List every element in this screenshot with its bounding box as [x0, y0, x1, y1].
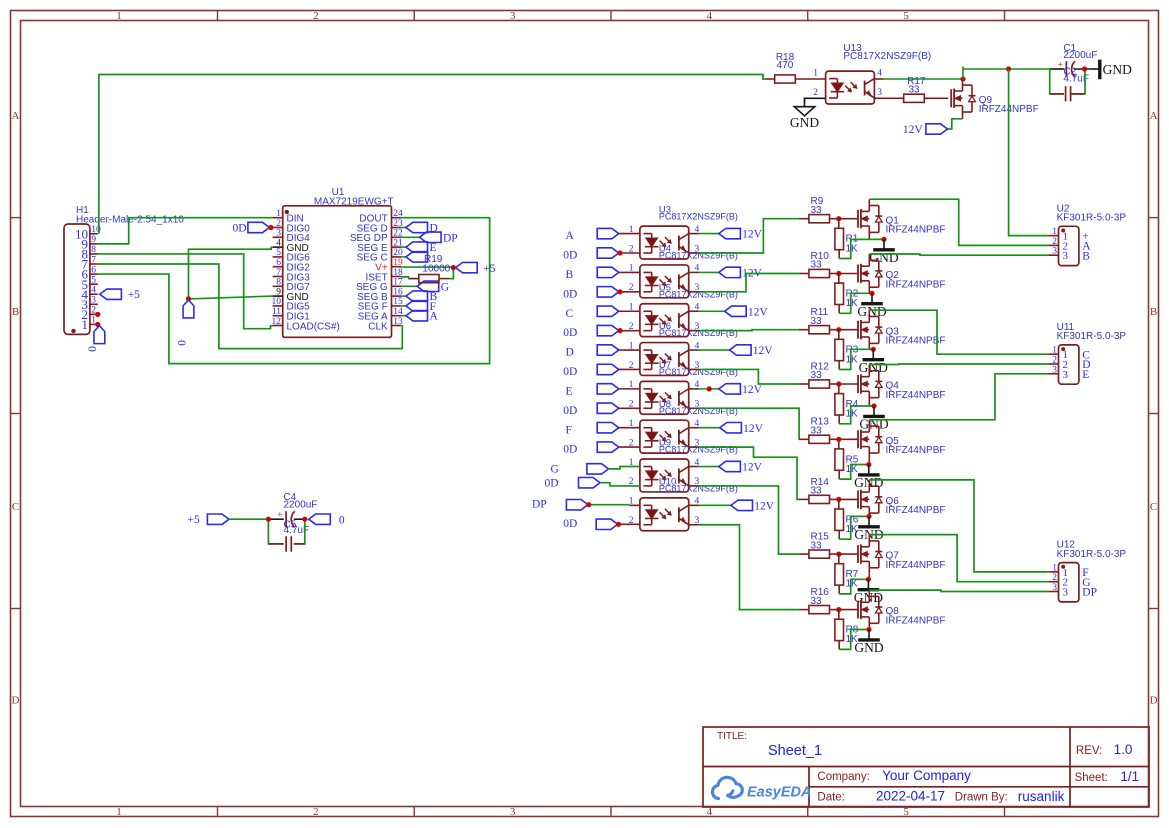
wire R6 to ground [839, 516, 869, 539]
wire gate Q6 [839, 498, 858, 500]
resistor R2 1K [835, 274, 859, 314]
node 0D row 1 [617, 250, 622, 255]
node Q1 source junction [881, 237, 886, 242]
node R11 junction [836, 327, 841, 332]
optocoupler U4 [640, 265, 689, 298]
svg-text:G: G [551, 464, 559, 476]
node R9 junction [836, 216, 841, 221]
svg-text:GND: GND [790, 115, 819, 130]
U1 pin 13 CLK [368, 317, 403, 333]
svg-text:D: D [12, 695, 20, 707]
resistor R12 33 [799, 361, 839, 388]
svg-text:3: 3 [1052, 583, 1057, 593]
wire R5 to ground [839, 465, 869, 480]
svg-text:2: 2 [813, 88, 818, 98]
svg-text:12V: 12V [742, 229, 763, 241]
wire 12V rail to C1 [963, 67, 1050, 80]
capacitor C4 2200uF [268, 492, 317, 527]
svg-text:1: 1 [82, 317, 89, 332]
transistor Q1 IRFZ44NPBF [858, 199, 882, 239]
svg-text:12V: 12V [753, 345, 774, 357]
svg-text:3: 3 [276, 229, 281, 239]
svg-text:3: 3 [91, 296, 96, 306]
transistor Q3 IRFZ44NPBF [858, 310, 882, 349]
U1 pin 22 SEG DP [350, 229, 403, 245]
node R14 junction [836, 497, 841, 502]
svg-text:0: 0 [176, 340, 188, 346]
power flag +5 at R19 [456, 262, 496, 275]
U1 pin 3 DIG4 [273, 229, 311, 245]
net flag 0 at C4 [309, 514, 345, 526]
ground at Q1 [869, 239, 898, 265]
svg-text:IRFZ44NPBF: IRFZ44NPBF [886, 445, 946, 456]
net flag F at U1 SEG F [401, 301, 436, 313]
svg-text:Drawn By:: Drawn By: [955, 792, 1008, 804]
svg-text:B: B [566, 269, 574, 281]
svg-text:PC817X2NSZ9F(B): PC817X2NSZ9F(B) [659, 289, 738, 299]
svg-text:4: 4 [707, 806, 713, 818]
title block [703, 727, 1149, 807]
connector U12 KF301R-5.0-3P [1048, 540, 1126, 602]
svg-text:8: 8 [91, 245, 96, 255]
IC U1 MAX7219EWG+T [283, 187, 394, 337]
resistor R8 1K [835, 610, 859, 650]
U8 pin numbers [629, 419, 700, 448]
svg-text:Sheet_1: Sheet_1 [768, 743, 822, 759]
node 12V row 5 junction [707, 386, 712, 391]
svg-text:7: 7 [91, 255, 96, 265]
H1 pin 4 [82, 286, 98, 302]
svg-text:12V: 12V [742, 462, 763, 474]
node C4 left junction [266, 517, 271, 522]
U4 pin numbers [629, 264, 700, 293]
svg-text:DP: DP [443, 232, 458, 244]
U1 pin 1 DIN [273, 209, 304, 225]
U5 pin numbers [629, 303, 700, 332]
U13 pin numbers [813, 69, 882, 98]
net flag B input row 2 [566, 267, 640, 281]
wire U1 GND pins to 0 flag [189, 247, 273, 299]
net flag DP at U1 SEG DP [401, 232, 457, 244]
svg-text:2: 2 [313, 806, 319, 818]
node Q4 source junction [871, 403, 876, 408]
svg-text:B: B [1082, 250, 1090, 262]
node C1 junction [1082, 66, 1087, 71]
label U9 [659, 438, 738, 455]
label Q9 [979, 95, 1039, 115]
resistor R4 1K [835, 384, 859, 424]
svg-text:GND: GND [854, 640, 883, 655]
svg-text:D: D [566, 347, 574, 359]
svg-text:2: 2 [1052, 356, 1057, 366]
svg-text:12V: 12V [903, 124, 924, 136]
wire R4 to ground [839, 406, 874, 424]
net flag 0D input row 7 [545, 478, 640, 490]
resistor R13 33 [799, 417, 839, 444]
svg-text:0: 0 [339, 514, 345, 526]
svg-text:KF301R-5.0-3P: KF301R-5.0-3P [1057, 213, 1127, 224]
wire gate Q4 [839, 383, 858, 385]
node Q5 source junction [866, 462, 871, 467]
wire R19 to +5 flag [449, 267, 453, 279]
U7 pin numbers [629, 380, 700, 409]
net flag 12V at Q9 [903, 124, 948, 136]
resistor R10 33 [799, 251, 839, 278]
svg-text:DP: DP [532, 499, 547, 511]
svg-text:+: + [277, 509, 282, 519]
svg-text:6: 6 [276, 258, 281, 268]
svg-text:PC817X2NSZ9F(B): PC817X2NSZ9F(B) [659, 483, 738, 493]
node 0D wire end [268, 225, 273, 230]
node Q6 source junction [866, 514, 871, 519]
svg-text:24: 24 [393, 209, 403, 219]
H1 pin 3 [82, 296, 98, 312]
svg-text:PC817X2NSZ9F(B): PC817X2NSZ9F(B) [659, 445, 738, 455]
node R16 junction [836, 607, 841, 612]
svg-text:IRFZ44NPBF: IRFZ44NPBF [886, 225, 946, 236]
U1 pin 14 SEG A [358, 307, 403, 323]
svg-text:3: 3 [1052, 247, 1057, 257]
net flag 0D input row 2 [563, 287, 640, 301]
resistor R6 1K [835, 499, 859, 539]
svg-text:12V: 12V [748, 306, 769, 318]
label U3 [659, 205, 738, 222]
U3 pin numbers [629, 225, 700, 254]
capacitor C2 4.7uF [1050, 67, 1089, 102]
net flag 12V row 6 [689, 423, 764, 435]
svg-text:3: 3 [877, 88, 882, 98]
node R13 junction [836, 437, 841, 442]
label U4 [659, 244, 738, 261]
optocoupler U7 [640, 381, 689, 414]
U1 pin 18 ISET [365, 268, 402, 284]
svg-text:0: 0 [87, 346, 99, 352]
net flag 0D input row 3 [563, 325, 640, 339]
svg-text:10000: 10000 [422, 263, 450, 274]
transistor Q2 IRFZ44NPBF [858, 254, 882, 293]
wire opto row 8 pin3 [689, 525, 799, 610]
label Q4 [886, 381, 946, 401]
label Q5 [886, 436, 946, 456]
net flag 0D input row 5 [563, 403, 640, 417]
wire gate Q2 [839, 273, 858, 275]
svg-text:REV:: REV: [1076, 745, 1102, 757]
net flag 12V row 7 [689, 461, 763, 473]
resistor R5 1K [835, 439, 859, 479]
ground at Q2 [857, 293, 886, 319]
H1 pin 1 [82, 316, 98, 332]
node +5 junction [451, 265, 456, 270]
svg-text:+5: +5 [128, 289, 140, 301]
svg-text:8: 8 [276, 278, 281, 288]
net flag D input row 4 [566, 345, 640, 359]
svg-text:E: E [430, 242, 437, 254]
svg-text:1K: 1K [846, 298, 859, 309]
svg-text:E: E [1082, 369, 1089, 381]
svg-text:1: 1 [1052, 563, 1057, 573]
wire opto row 4 pin3 [689, 369, 799, 384]
ground at Q7 [854, 579, 883, 605]
label Q6 [886, 496, 946, 516]
svg-text:KF301R-5.0-3P: KF301R-5.0-3P [1057, 549, 1127, 560]
node H1 pin1 wire end [95, 322, 100, 327]
label U6 [659, 321, 738, 338]
net flag 0D input row 6 [563, 442, 640, 456]
U6 pin numbers [629, 341, 700, 370]
resistor R17 33 [873, 76, 948, 102]
svg-text:IRFZ44NPBF: IRFZ44NPBF [886, 615, 946, 626]
wire gate Q8 [839, 609, 858, 611]
optocoupler U5 [640, 304, 689, 337]
U1 pin 10 DIG5 [272, 297, 311, 313]
svg-text:5: 5 [903, 806, 909, 818]
resistor R7 1K [835, 554, 859, 594]
svg-text:Your Company: Your Company [882, 768, 971, 783]
net flag B at U1 SEG B [401, 291, 437, 303]
svg-text:+5: +5 [188, 514, 200, 526]
U1 pin 21 SEG E [357, 238, 403, 254]
wire Q2 drain to connector [869, 254, 1048, 255]
wire +5 to C4 [229, 518, 268, 520]
U9 pin numbers [629, 458, 700, 487]
svg-text:GND: GND [859, 417, 888, 432]
net flag 0D input row 4 [563, 364, 640, 378]
svg-text:GND: GND [859, 360, 888, 375]
label U7 [659, 360, 738, 377]
svg-text:PC817X2NSZ9F(B): PC817X2NSZ9F(B) [659, 367, 738, 377]
wire H1 pin7 to U1 CLK [98, 264, 403, 349]
svg-text:3: 3 [1063, 250, 1069, 262]
svg-text:IRFZ44NPBF: IRFZ44NPBF [886, 279, 946, 290]
svg-text:1: 1 [116, 806, 122, 818]
svg-text:1: 1 [1052, 227, 1057, 237]
U1 pin 16 SEG B [357, 287, 403, 303]
node 0D row 2 [617, 289, 622, 294]
label Q3 [886, 326, 946, 346]
svg-text:1K: 1K [846, 464, 859, 475]
transistor Q6 IRFZ44NPBF [858, 480, 882, 517]
net flag 0D input row 1 [563, 248, 640, 262]
svg-text:EasyEDA: EasyEDA [747, 785, 811, 801]
U1 pin 17 SEG G [356, 278, 403, 294]
U1 pin 12 LOAD(CS#) [272, 317, 340, 333]
svg-text:1K: 1K [846, 409, 859, 420]
U1 pin 20 SEG C [357, 248, 403, 264]
optocoupler U13 [826, 71, 875, 104]
svg-text:0D: 0D [563, 444, 577, 456]
svg-text:12V: 12V [743, 423, 764, 435]
U1 pin 23 SEG D [357, 219, 403, 235]
label Q7 [886, 551, 946, 571]
net flag F input row 6 [566, 423, 640, 437]
ground at Q3 [859, 349, 888, 375]
label U8 [659, 399, 738, 416]
svg-text:0D: 0D [563, 366, 577, 378]
svg-text:PC817X2NSZ9F(B): PC817X2NSZ9F(B) [659, 251, 738, 261]
svg-text:Date:: Date: [817, 792, 845, 804]
svg-text:6: 6 [91, 265, 96, 275]
svg-text:Header-Male-2.54_1x10: Header-Male-2.54_1x10 [76, 215, 184, 226]
node Q9 drain junction [960, 76, 965, 81]
wire opto row 5 pin3 [689, 408, 799, 439]
U1 pin 2 DIG0 [273, 219, 311, 235]
svg-text:10: 10 [272, 297, 282, 307]
net flag 12V row 8 [689, 500, 775, 512]
svg-text:5: 5 [91, 275, 96, 285]
svg-text:E: E [566, 385, 573, 397]
optocoupler U9 [640, 459, 689, 492]
wire opto row 1 pin3 [689, 219, 799, 253]
svg-text:4: 4 [276, 238, 281, 248]
label U13 [843, 43, 931, 62]
net flag D at U1 SEG D [401, 222, 438, 234]
U1 pin 4 GND [273, 238, 309, 254]
wire gate Q1 [839, 218, 858, 220]
wire U1 V+ to +5 [401, 266, 453, 268]
svg-text:PC817X2NSZ9F(B): PC817X2NSZ9F(B) [843, 51, 931, 62]
svg-text:Sheet:: Sheet: [1075, 772, 1108, 784]
U1 pin 9 GND [273, 287, 309, 303]
svg-text:IRFZ44NPBF: IRFZ44NPBF [886, 390, 946, 401]
ground at Q5 [854, 465, 883, 491]
U1 pin 15 SEG F [358, 297, 403, 313]
resistor R11 33 [799, 307, 839, 334]
connector U11 KF301R-5.0-3P [1048, 322, 1126, 384]
svg-text:IRFZ44NPBF: IRFZ44NPBF [886, 505, 946, 516]
resistor R14 33 [799, 477, 839, 504]
svg-text:C: C [566, 308, 574, 320]
wire Q8 drain to connector [869, 590, 1048, 591]
svg-text:F: F [566, 424, 572, 436]
transistor Q8 IRFZ44NPBF [858, 590, 882, 629]
U10 pin numbers [629, 497, 700, 526]
node 0D row 8 [616, 522, 621, 527]
label U10 [659, 476, 738, 493]
svg-text:11: 11 [272, 307, 281, 317]
U1 pin 19 V+ [375, 258, 403, 274]
net flag DP input row 8 [532, 499, 640, 511]
svg-text:A: A [566, 230, 575, 242]
svg-text:5: 5 [276, 248, 281, 258]
capacitor C1 2200uF [1050, 43, 1098, 77]
connector H1 Header-Male-2.54_1x10 [64, 205, 184, 334]
svg-text:13: 13 [393, 317, 403, 327]
U1 pin 11 DIG1 [272, 307, 310, 323]
node Q2 source junction [869, 291, 874, 296]
wire opto row 3 pin3 [689, 329, 799, 332]
optocoupler U6 [640, 343, 689, 376]
H1 pin 10 [75, 225, 101, 241]
svg-text:2200uF: 2200uF [284, 499, 318, 510]
svg-text:1: 1 [116, 10, 122, 22]
optocoupler U3 [640, 226, 689, 259]
ground at Q8 [854, 630, 883, 656]
capacitor C5 4.7uF [268, 519, 309, 552]
svg-text:+5: +5 [483, 263, 495, 275]
resistor R1 1K [835, 219, 859, 259]
svg-text:0D: 0D [563, 250, 577, 262]
net flag A input row 1 [566, 228, 640, 242]
U1 pin 8 DIG7 [273, 278, 311, 294]
U1 pin 24 DOUT [359, 209, 403, 225]
svg-text:B: B [12, 306, 19, 318]
H1 pin 2 [82, 306, 98, 322]
node 0 junction [186, 296, 191, 301]
svg-text:9: 9 [91, 235, 96, 245]
svg-text:1: 1 [1052, 346, 1057, 356]
H1 pin 9 [82, 235, 98, 251]
node Q8 source junction [866, 627, 871, 632]
node 0D row 3 [617, 328, 622, 333]
svg-text:GND: GND [1103, 62, 1132, 77]
optocoupler U10 [640, 498, 689, 531]
svg-text:C: C [1150, 501, 1157, 513]
svg-text:4: 4 [91, 286, 96, 296]
wire gate Q5 [839, 438, 858, 440]
svg-text:4: 4 [707, 10, 713, 22]
U1 pin 6 DIG2 [273, 258, 311, 274]
connector U2 KF301R-5.0-3P [1048, 203, 1126, 265]
wire H1 pin10 to R18 (top rail) [99, 75, 766, 234]
net flag 0 at H1 pin1 [87, 326, 105, 352]
net flag 12V row 1 [689, 228, 763, 240]
svg-text:12: 12 [272, 317, 282, 327]
transistor Q5 IRFZ44NPBF [858, 420, 882, 465]
svg-text:A: A [430, 311, 439, 323]
wire Q6 drain to connector [869, 480, 1048, 572]
net flag A at U1 SEG A [401, 311, 438, 323]
wire gate Q7 [839, 553, 858, 555]
resistor R16 33 [799, 587, 839, 614]
ground at Q6 [854, 516, 883, 542]
svg-text:2: 2 [313, 10, 319, 22]
svg-text:G: G [441, 281, 449, 293]
power flag +5 at H1 pin4 [100, 289, 140, 301]
wire opto row 6 pin3 [689, 447, 799, 499]
label Q1 [886, 215, 946, 235]
wire R7 to ground [839, 579, 868, 594]
svg-text:TITLE:: TITLE: [717, 731, 747, 742]
wire R2 to ground [839, 293, 872, 313]
H1 pin 5 [82, 275, 98, 291]
node R12 junction [836, 381, 841, 386]
node H1 pin2 wire end [95, 312, 100, 317]
node 12V bus junction [1006, 66, 1011, 71]
net flag 12V row 5 [689, 384, 763, 396]
ground at Q4 [859, 406, 888, 432]
svg-text:D: D [1150, 695, 1158, 707]
node DP wire end [586, 502, 591, 507]
node R15 junction [836, 552, 841, 557]
wire 12V bus to U2 pin1 [1009, 69, 1049, 236]
wire opto row 7 pin3 [689, 486, 799, 554]
svg-text:7: 7 [276, 268, 281, 278]
wire Q7 drain to connector [869, 535, 1048, 582]
wire R1 to ground [839, 239, 884, 258]
wire Q4 drain to connector [869, 363, 1048, 366]
resistor R19 10000 [401, 254, 450, 283]
svg-text:1K: 1K [846, 354, 859, 365]
net flag 0D input row 8 [563, 518, 640, 530]
resistor R3 1K [835, 330, 859, 370]
svg-text:1.0: 1.0 [1114, 742, 1133, 757]
svg-text:rusanlik: rusanlik [1018, 789, 1065, 804]
svg-text:1K: 1K [846, 243, 859, 254]
net flag C input row 3 [566, 306, 640, 320]
svg-text:12V: 12V [742, 384, 763, 396]
wire gate Q3 [839, 329, 858, 331]
net flag E input row 5 [566, 384, 640, 398]
